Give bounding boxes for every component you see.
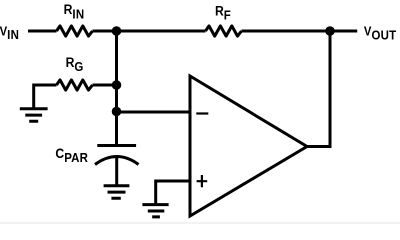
junction node C_PAR bbox=[112, 107, 122, 117]
resistor R_F bbox=[206, 26, 242, 36]
bottom edge shadow bbox=[0, 222, 400, 224]
wire R_G left lead bbox=[34, 85, 57, 108]
ground G2 bbox=[104, 186, 130, 199]
pin label minus bbox=[196, 112, 208, 114]
ground G1 bbox=[20, 109, 48, 122]
junction node V_OUT bbox=[325, 26, 335, 36]
junction node at R_IN/R_F bbox=[112, 26, 122, 36]
resistor R_IN bbox=[57, 26, 93, 36]
wire non-inverting input bbox=[156, 181, 190, 203]
wire R_G to node bbox=[93, 84, 117, 87]
wire inverting input bbox=[117, 111, 191, 114]
wire R_F to V_OUT bbox=[242, 30, 358, 33]
op-amp U1 bbox=[190, 76, 307, 216]
wire V_IN to R_IN bbox=[28, 30, 57, 33]
resistor R_G bbox=[57, 80, 93, 90]
wire vertical summing node bbox=[115, 31, 118, 112]
pin label plus bbox=[197, 175, 208, 187]
junction node R_G bbox=[112, 80, 122, 90]
ground G3 bbox=[142, 205, 168, 217]
wire output bbox=[307, 31, 330, 147]
capacitor C_PAR bbox=[95, 112, 139, 185]
wire R_IN to R_F bbox=[93, 30, 206, 33]
